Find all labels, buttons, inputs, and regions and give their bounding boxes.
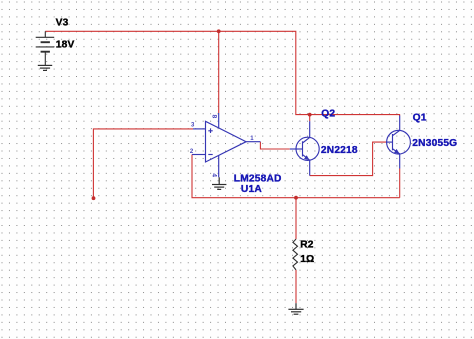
- svg-text:V3: V3: [56, 17, 69, 28]
- ground under battery: [38, 65, 52, 70]
- wire: feedback bottom rail pin2 to Q1 emitter: [192, 155, 400, 198]
- svg-text:2N3055G: 2N3055G: [412, 138, 457, 149]
- wire: top rail from V3 over to Q1 collector: [45, 31, 399, 116]
- wire: pin8 branch down to op-amp V+: [218, 31, 220, 113]
- svg-text:8: 8: [210, 115, 217, 119]
- wire: Q2 emitter to Q1 base: [310, 142, 386, 176]
- Q1 emitter arrow: [394, 149, 400, 154]
- node open wire endpoint dot left: [92, 196, 96, 200]
- svg-text:R2: R2: [300, 240, 314, 251]
- node junction dot bottom rail / R2: [294, 196, 298, 200]
- wire: R2 top: [295, 198, 297, 239]
- wire: op-amp output to Q2 base: [260, 142, 289, 149]
- op-amp U1A: [192, 113, 260, 177]
- svg-text:Q2: Q2: [321, 109, 335, 120]
- node junction dot top rail / pin8: [217, 29, 221, 33]
- resistor R2: [293, 239, 298, 270]
- svg-text:LM258AD: LM258AD: [234, 174, 282, 185]
- svg-text:18V: 18V: [56, 40, 75, 51]
- transistor Q2 2N2218: [290, 121, 319, 175]
- wire: R2 bottom to ground: [295, 270, 297, 303]
- minus sign: [208, 154, 212, 156]
- wire: Q2 collector connection: [309, 115, 311, 122]
- svg-text:2N2218: 2N2218: [321, 145, 358, 156]
- battery V3: [36, 31, 55, 65]
- wire: non-inverting input to left stub: [93, 129, 193, 198]
- Q2 emitter arrow: [304, 155, 310, 160]
- transistor Q1 2N3055G: [386, 116, 410, 169]
- node junction dot collector rail / Q2: [308, 113, 312, 117]
- plus sign: [208, 130, 212, 132]
- svg-text:4: 4: [211, 173, 218, 177]
- wire: Q1 emitter down: [399, 169, 401, 198]
- svg-text:U1A: U1A: [241, 184, 262, 195]
- ground under op-amp: [212, 177, 226, 189]
- ground under R2: [288, 303, 303, 314]
- svg-text:Q1: Q1: [413, 112, 427, 123]
- svg-text:1Ω: 1Ω: [300, 254, 314, 265]
